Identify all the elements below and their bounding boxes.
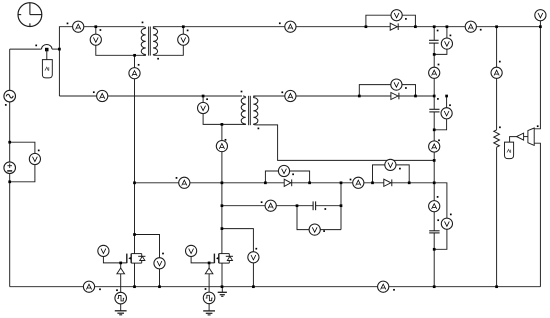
marker dot A13	[261, 201, 263, 203]
marker dot C3	[437, 219, 439, 221]
marker dot V5	[405, 87, 407, 89]
wire voltmeter V7 branch	[434, 27, 447, 55]
ammeter A14 return rail left	[83, 281, 94, 292]
junction rail to return	[433, 285, 436, 288]
transformer T2 secondary winding	[253, 96, 258, 125]
wire T2 secondary bus	[253, 95, 434, 97]
wire clamp capacitor C4 branch y205	[222, 205, 341, 207]
junction clamp bus at T2 rail	[221, 181, 224, 184]
wire voltmeter V13 branch across Q1	[135, 235, 160, 287]
wire capacitor C1 rail	[433, 27, 435, 287]
junction C2 top	[433, 95, 436, 98]
ammeter A11 load rail	[491, 67, 502, 78]
ammeter A8 link rail 1	[429, 67, 440, 78]
marker dot A2	[93, 91, 95, 93]
wire voltmeter V2 branch across T1 secondary	[157, 27, 183, 56]
AC source VS1	[4, 90, 16, 102]
ammeter A16 clamp bus left	[179, 177, 190, 188]
wire input top from left rail to sensor node	[10, 48, 60, 50]
junction D4 left	[371, 181, 374, 184]
marker dot A4	[225, 139, 227, 141]
marker dot C2	[437, 98, 439, 100]
marker dot VS1	[5, 104, 7, 106]
voltmeter V12 across C4	[309, 224, 320, 235]
wire load resistor rail	[496, 27, 498, 287]
wire right rail upper to sensor	[534, 27, 541, 129]
marker dot A6	[279, 22, 281, 24]
marker dot V3	[206, 98, 208, 100]
marker dot VSEN1	[537, 125, 539, 127]
ammeter A7 output bus	[465, 21, 476, 32]
voltmeter V6 output	[535, 10, 546, 21]
junction C1 top	[433, 25, 436, 28]
junction Q1 source	[133, 285, 136, 288]
junction V7 bottom	[433, 53, 436, 56]
wire Q2 driver stem	[208, 263, 210, 268]
wire T2 secondary return	[258, 125, 434, 160]
junction V3 top	[202, 95, 205, 98]
marker dot A8	[438, 64, 440, 66]
junction D1 left	[365, 25, 368, 28]
marker dot V8	[449, 104, 451, 106]
wire voltmeter V10 bracket over diode D3	[265, 171, 309, 183]
wire T1 secondary bus to output	[153, 26, 541, 28]
capacitor C3	[429, 231, 439, 233]
capacitor C2	[429, 109, 439, 112]
voltmeter V16 Q2 gate	[186, 245, 197, 256]
marker dot V1	[100, 29, 102, 31]
wire Q2 driver input	[208, 274, 210, 292]
ammeter A2 branch2 input	[97, 90, 108, 101]
mosfet Q1	[127, 254, 146, 264]
voltmeter V3 T2 primary	[198, 102, 209, 113]
diode D1 output rectifier 1	[390, 23, 398, 30]
capacitor C1	[429, 40, 439, 43]
diode D4 clamp	[384, 179, 392, 186]
current probe Iin	[42, 60, 52, 78]
marker dot A14	[99, 288, 101, 290]
junction Q2 gate node	[208, 262, 211, 265]
ground under G1	[115, 304, 127, 315]
junction T1 rail top	[133, 54, 136, 57]
ammeter A9 link rail 2	[429, 141, 440, 152]
junction D3 left	[264, 181, 267, 184]
junction V14 bottom	[252, 285, 255, 288]
marker dot V14	[255, 248, 257, 250]
marker dot V7	[450, 35, 452, 37]
ground main rail	[218, 287, 227, 297]
junction load rail bottom	[495, 285, 498, 288]
polarity dot T1 secondary	[157, 58, 159, 60]
wire voltmeter V12 bracket under C4	[297, 206, 341, 230]
marker dot A1	[67, 23, 69, 25]
wire voltmeter V17 branch across source	[10, 142, 35, 182]
wire voltmeter V3 branch across T2 primary	[203, 96, 246, 124]
junction V17 top	[8, 141, 11, 144]
marker dot C1	[437, 30, 439, 32]
marker dot V4	[405, 18, 407, 20]
wire voltmeter V11 bracket over diode D4	[373, 165, 410, 183]
diode D3 clamp	[284, 179, 292, 186]
voltmeter V1 T1 primary	[90, 34, 101, 45]
wire Q1 driver stem	[120, 263, 122, 268]
current sensor bead node	[42, 45, 53, 60]
transformer T1 primary winding	[141, 27, 146, 56]
marker dot near sensor	[35, 45, 37, 47]
diode D2 output rectifier 2	[391, 93, 399, 100]
ammeter A12 clamp bus right	[353, 177, 364, 188]
capacitor C4 clamp	[313, 201, 316, 210]
mosfet Q2	[214, 254, 233, 264]
voltmeter V2 T1 secondary	[178, 34, 189, 45]
junction D1 right	[414, 25, 417, 28]
junction V8 bottom	[433, 128, 436, 131]
marker dot A16	[176, 177, 178, 179]
voltage sensor VSEN1	[528, 128, 534, 145]
gate driver buffer Q2	[205, 268, 213, 274]
voltmeter V17 source voltage	[29, 153, 40, 164]
ground under G2	[203, 304, 215, 315]
wire voltmeter V14 branch across Q2	[222, 229, 254, 287]
marker dot A7	[480, 29, 482, 31]
voltmeter V5 across D2	[391, 79, 402, 90]
marker dot V17	[38, 150, 40, 152]
junction D2 left	[358, 95, 361, 98]
junction V17 bottom	[8, 180, 11, 183]
ammeter A3 T1 primary return	[129, 68, 140, 79]
junction V12 left leg	[296, 204, 299, 207]
wire branch2 bus to transformer T2	[59, 95, 242, 97]
wire Q1 source to rail	[134, 263, 136, 287]
wire Q1 driver input	[120, 274, 122, 293]
ammeter A15 return rail right	[378, 281, 389, 292]
wire voltmeter V1 branch across T1 primary	[96, 27, 146, 56]
junction D3 right	[308, 181, 311, 184]
ammeter A1 primary input	[73, 21, 84, 32]
marker dot G2	[205, 288, 207, 290]
DC source VDC1	[4, 162, 16, 174]
ammeter A10 link rail 3	[429, 201, 440, 212]
marker dot A9	[438, 139, 440, 141]
ammeter A6 secondary bus 1	[285, 21, 296, 32]
junction V2 top	[182, 25, 185, 28]
marker dot A11	[499, 61, 501, 63]
junction node riser/top wire	[58, 48, 61, 51]
junction D4 right	[408, 181, 411, 184]
marker dot R1	[499, 126, 501, 128]
junction V13 top	[133, 233, 136, 236]
wire riser node to primary bus	[59, 27, 143, 96]
junction V7 top	[446, 25, 449, 28]
wire right rail lower from sensor	[534, 143, 541, 287]
marker dot V11	[399, 168, 401, 170]
voltmeter V15 Q1 gate	[98, 245, 109, 256]
marker dot V12	[323, 230, 325, 232]
wire clamp bus y183	[135, 183, 447, 218]
wire Q2 source to rail	[221, 263, 223, 287]
wire voltmeter V8 branch	[434, 96, 446, 130]
junction C4 right	[340, 204, 343, 207]
voltage probe Vout	[505, 142, 514, 159]
junction secondary return joins rail	[433, 159, 436, 162]
wire voltmeter V5 bracket over diode D2	[359, 85, 415, 96]
wire clamp capacitor C4 riser	[340, 183, 342, 230]
wire sensor gain output to probe	[510, 137, 529, 143]
voltmeter V7 across C1	[441, 38, 452, 49]
transformer T1 core	[149, 27, 151, 56]
wire T2 primary return rail down to Q2 drain	[221, 124, 223, 253]
gain block K1	[517, 133, 524, 140]
transformer T2 core	[249, 96, 251, 125]
junction V8 top	[445, 95, 448, 98]
marker dot C4	[324, 208, 326, 210]
junction V1 top	[94, 25, 97, 28]
junction V13 bottom	[158, 285, 161, 288]
junction D2 right	[414, 95, 417, 98]
marker dot A3	[138, 64, 140, 66]
ammeter A4 T2 primary return	[216, 141, 227, 152]
ammeter A13 clamp branch	[265, 200, 276, 211]
junction V6 bottom	[539, 25, 542, 28]
wire voltmeter V9 bottom leg	[434, 229, 447, 249]
junction clamp branch at T2 rail	[221, 204, 224, 207]
junction clamp bus crosses rail	[433, 181, 436, 184]
gating source G1	[115, 292, 127, 304]
ammeter A5 secondary bus 2	[285, 90, 296, 101]
gate driver buffer Q1	[117, 268, 125, 274]
voltmeter V11 across D4	[385, 159, 396, 170]
junction V9 bottom	[433, 248, 436, 251]
marker dot V13	[162, 253, 164, 255]
wire Q1 gate net	[103, 251, 126, 263]
junction T2 rail top	[221, 123, 224, 126]
voltmeter V4 across D1	[391, 10, 402, 21]
junction clamp bus left	[133, 181, 136, 184]
wire voltmeter V4 bracket over diode D1	[366, 15, 416, 27]
marker dot V9	[450, 214, 452, 216]
wire Q2 gate net	[191, 251, 214, 263]
transformer T2 primary winding	[241, 96, 246, 124]
wire left input rail down	[9, 49, 11, 287]
marker dot A5	[281, 91, 283, 93]
marker dot V10	[292, 173, 294, 175]
junction Q1 gate node	[119, 262, 122, 265]
wire voltmeter V6 stem	[539, 15, 541, 27]
marker dot A10	[437, 196, 439, 198]
voltmeter V13 across Q1	[154, 258, 165, 269]
voltmeter V9 across A10+C3	[441, 218, 452, 229]
voltmeter V10 across D3	[278, 165, 289, 176]
wire bottom return rail	[10, 286, 541, 288]
gating source G2	[203, 292, 215, 304]
marker dot G1	[116, 289, 118, 291]
polarity dot T2 primary	[241, 91, 243, 93]
transformer T1 secondary winding	[153, 27, 158, 56]
clock (simulation control)	[18, 3, 42, 27]
junction C4 riser top	[340, 181, 343, 184]
voltmeter V8 across C2	[441, 108, 452, 119]
junction Q2 source ground	[221, 285, 224, 288]
voltmeter V14 across Q2	[248, 252, 259, 263]
marker dot V2	[187, 30, 189, 32]
marker dot A15	[393, 289, 395, 291]
polarity dot T2 secondary	[258, 128, 260, 130]
wire T1 primary return rail down to Q1 drain	[134, 55, 136, 253]
polarity dot T1 primary	[142, 22, 144, 24]
junction V14 top	[221, 227, 224, 230]
resistor R1 load	[494, 130, 500, 147]
marker dot A12	[350, 179, 352, 181]
junction load rail top	[495, 25, 498, 28]
